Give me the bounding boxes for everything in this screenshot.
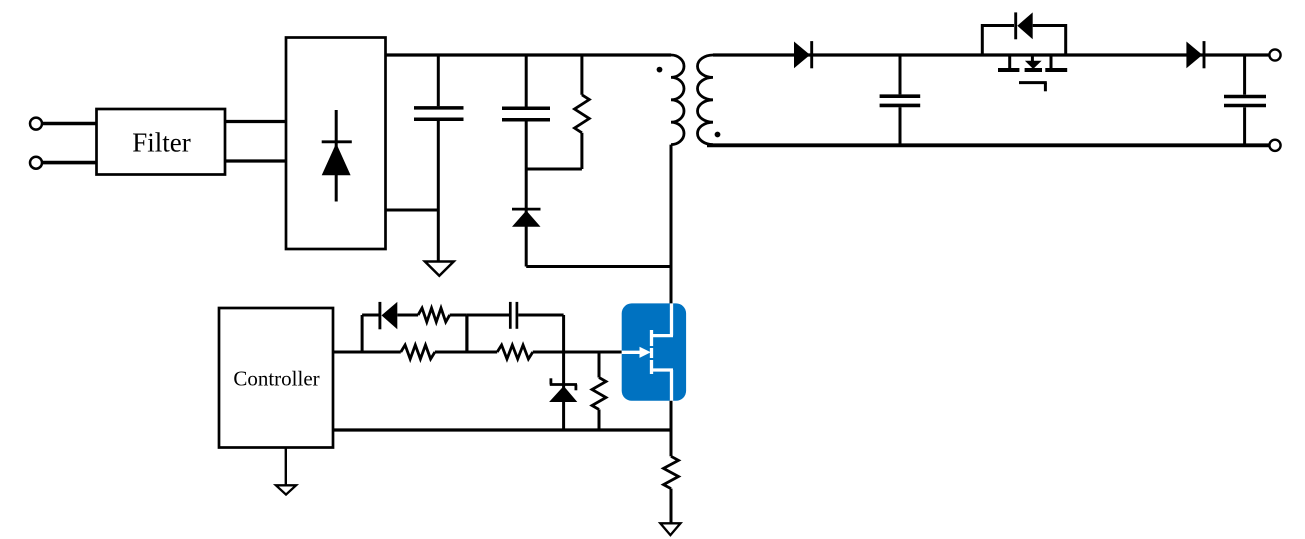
wire bypass left	[982, 26, 1014, 56]
ground under controller	[276, 448, 296, 495]
input terminal bottom	[30, 157, 42, 169]
resistor R4 gate series	[497, 345, 533, 359]
wire snubber RC bottom	[526, 168, 582, 171]
bridge rectifier box	[286, 38, 386, 250]
transformer T1 secondary dot	[715, 132, 721, 138]
wire drain	[670, 145, 673, 304]
MOSFET Q1 highlighted	[622, 303, 686, 400]
wire gate return bottom	[333, 428, 671, 431]
MOSFET Q2 sync rectifier	[998, 55, 1067, 91]
diode D1 snubber clamp	[512, 209, 541, 227]
resistor R2 gate top	[418, 308, 467, 322]
wire input bottom	[42, 161, 97, 165]
wire source	[670, 401, 673, 430]
diode D3 secondary rectifier	[794, 41, 812, 68]
diode D6 gate	[362, 302, 418, 329]
capacitor C3 secondary	[880, 55, 921, 145]
wire bypass right	[1033, 26, 1066, 56]
resistor R5 gate pulldown	[592, 352, 606, 430]
filter block	[97, 109, 226, 175]
ground under C1	[425, 262, 454, 276]
output terminal top	[1269, 49, 1280, 60]
wire branch mid junction	[465, 315, 468, 352]
input terminal top	[30, 118, 42, 130]
transformer T1 primary dot	[657, 67, 663, 73]
wire filter to bridge bottom	[225, 159, 287, 162]
ground under R6	[660, 523, 680, 535]
resistor R3 gate mid	[401, 345, 435, 359]
transformer T1 primary winding	[671, 55, 684, 145]
resistor R6 sense	[664, 430, 679, 523]
wire secondary bottom	[707, 143, 1270, 147]
wire gate mid	[333, 351, 401, 354]
wire bridge bottom out	[386, 209, 439, 212]
capacitor C2 snubber	[502, 55, 550, 267]
wire secondary top	[713, 53, 1270, 56]
wire filter to bridge top	[225, 120, 287, 123]
wire zener branch	[562, 315, 565, 430]
capacitor C1 bulk	[414, 55, 464, 262]
capacitor C4 output	[1224, 55, 1266, 145]
controller block	[219, 308, 333, 448]
output terminal bottom	[1269, 140, 1280, 151]
body diode D4	[1016, 12, 1033, 39]
capacitor C5 gate	[467, 302, 564, 329]
transformer T1 secondary winding	[697, 55, 713, 145]
wire input top	[42, 122, 97, 126]
svg-text:Controller: Controller	[233, 367, 319, 391]
wire snubber return	[526, 265, 671, 268]
zener diode Z1	[549, 378, 577, 402]
wire mid 2	[435, 351, 497, 354]
bridge rectifier diode	[322, 110, 352, 202]
diode D5 output	[1186, 41, 1204, 68]
svg-text:Filter: Filter	[132, 128, 191, 158]
wire branch left junction	[361, 315, 364, 352]
wire dc bus top	[386, 53, 672, 56]
wire mid 3	[533, 351, 622, 354]
resistor R1 snubber	[575, 55, 590, 169]
